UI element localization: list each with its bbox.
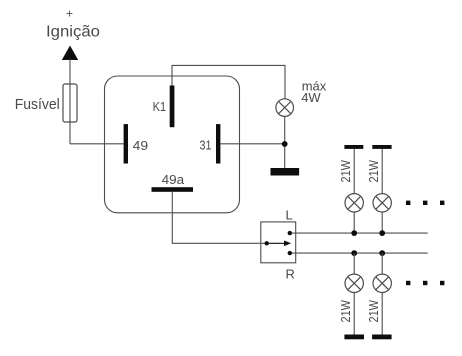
- svg-text:Ignição: Ignição: [46, 24, 100, 41]
- junction L2: [379, 230, 385, 236]
- wire L row: [292, 232, 428, 234]
- svg-text:21W: 21W: [338, 159, 353, 182]
- supply arrow: [62, 46, 78, 61]
- svg-text:+: +: [66, 7, 73, 21]
- wire lamp to ground: [284, 116, 286, 168]
- pin 49a: [152, 187, 194, 192]
- relay box: [105, 76, 240, 213]
- switch box: [261, 222, 296, 263]
- junction dot: [282, 141, 288, 147]
- switch common contact: [265, 241, 269, 245]
- wire R row to lamp R1: [353, 253, 355, 274]
- pin 49: [124, 124, 128, 163]
- wire lamp L2 to L row: [381, 212, 383, 233]
- junction L1: [351, 230, 357, 236]
- wire fuse to pin 49: [70, 143, 124, 145]
- ground: [271, 168, 300, 176]
- wire 49a to switch: [172, 192, 266, 244]
- lamp L2: [373, 194, 391, 212]
- svg-text:4W: 4W: [301, 90, 321, 105]
- wire R row: [292, 252, 428, 254]
- relay coil pin K1: [170, 86, 175, 128]
- wire lamp L1: [353, 149, 355, 194]
- svg-text:K1: K1: [153, 99, 167, 114]
- lamp L1: [345, 194, 363, 212]
- wire through fuse: [69, 84, 71, 144]
- wire lamp L2: [381, 149, 383, 194]
- switch arm arrow: [267, 242, 286, 244]
- pin 31: [216, 124, 220, 163]
- lamp R2: [373, 274, 391, 292]
- pilot lamp máx 4W: [276, 99, 294, 117]
- junction R2: [379, 250, 385, 256]
- wire lamp R1 to ground: [353, 292, 355, 334]
- junction R1: [351, 250, 357, 256]
- supply terminal bar 1: [344, 145, 363, 149]
- switch contact L: [288, 231, 292, 235]
- svg-text:R: R: [286, 267, 295, 282]
- svg-text:Fusível: Fusível: [15, 96, 60, 113]
- lamp R1: [345, 274, 363, 292]
- wire pin31 to lamp junction: [220, 143, 284, 145]
- svg-text:49: 49: [133, 138, 149, 153]
- supply terminal bar 2: [372, 145, 391, 149]
- switch contact R: [288, 251, 292, 255]
- ground lamp R2: [372, 335, 392, 340]
- svg-text:49a: 49a: [162, 172, 185, 187]
- wire arrow stem: [69, 59, 71, 84]
- wire lamp L1 to L row: [353, 212, 355, 233]
- svg-text:21W: 21W: [366, 159, 381, 182]
- wire K1 up and over to pilot lamp: [172, 65, 285, 99]
- fuse F1: [63, 84, 77, 122]
- svg-text:31: 31: [200, 138, 212, 153]
- ellipsis top: [406, 201, 410, 205]
- svg-text:21W: 21W: [338, 299, 353, 322]
- svg-text:L: L: [286, 208, 293, 223]
- wire lamp R2 to ground: [381, 292, 383, 334]
- svg-text:21W: 21W: [366, 299, 381, 322]
- ellipsis bottom: [406, 281, 410, 285]
- wire R row to lamp R2: [381, 253, 383, 274]
- ground lamp R1: [344, 335, 364, 340]
